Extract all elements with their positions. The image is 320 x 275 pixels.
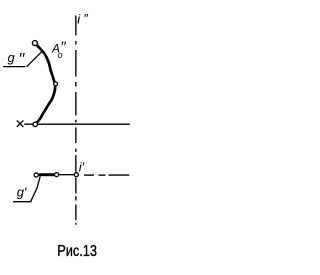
svg-text:g′: g′	[17, 185, 27, 200]
leader line of label g'	[31, 176, 40, 201]
axis i (vertical dash-dot center line)	[75, 16, 77, 225]
line g'' (thin 45-degree leader from label underline up to arc)	[27, 51, 43, 67]
rotation arc (thick) from A0" down to ground line	[35, 43, 55, 124]
lower dash-dot center line right of axis	[84, 174, 129, 176]
wire: thin line from bar to axis point i'	[59, 174, 74, 176]
ground line (horizontal, thin)	[24, 123, 130, 125]
segment g' (thick horizontal bar)	[39, 173, 54, 176]
node left end of g' bar	[34, 173, 38, 177]
x mark at left end of ground line	[17, 120, 24, 127]
node A'' on ground line (bottom of arc, open point)	[33, 122, 38, 127]
node on arc (mid open point)	[54, 82, 58, 86]
svg-text:i′: i′	[79, 159, 85, 174]
svg-text:″: ″	[83, 11, 88, 26]
svg-text:g: g	[8, 50, 16, 65]
svg-text:Рис.13: Рис.13	[57, 243, 97, 261]
underline of label g'	[13, 201, 32, 203]
node A0'' (open point, top of arc)	[32, 41, 37, 46]
node i' on axis	[74, 173, 78, 177]
underline of label g''	[3, 66, 26, 68]
svg-text:o: o	[58, 50, 63, 60]
node right end of g' bar	[55, 173, 59, 177]
svg-text:′′: ′′	[18, 51, 25, 68]
